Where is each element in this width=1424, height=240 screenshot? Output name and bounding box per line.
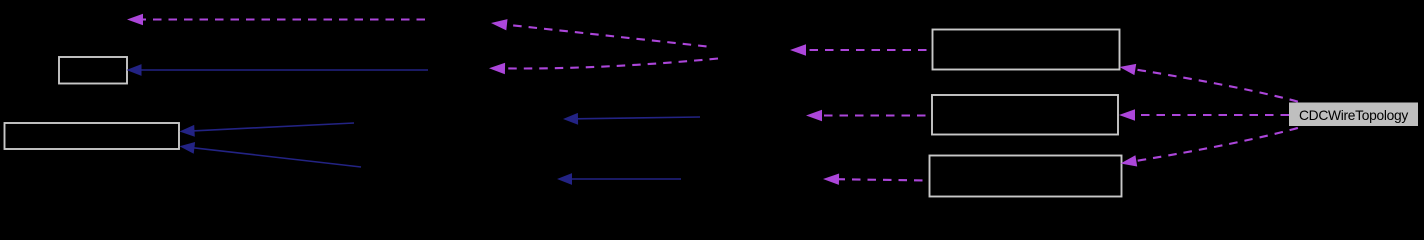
svg-text:CDCWireTopology: CDCWireTopology: [1299, 108, 1408, 123]
